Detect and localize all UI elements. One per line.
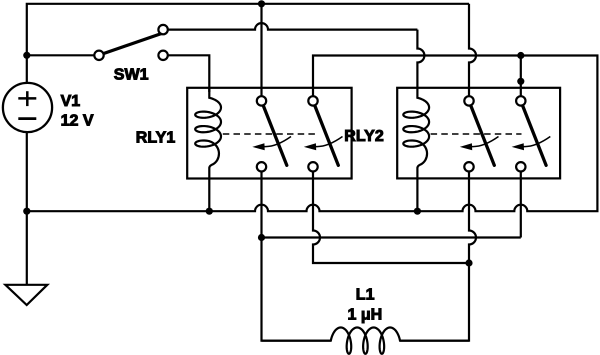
svg-text:1 μH: 1 μH — [348, 307, 383, 324]
svg-text:RLY1: RLY1 — [136, 129, 176, 146]
svg-text:12 V: 12 V — [61, 113, 94, 130]
svg-text:L1: L1 — [356, 287, 375, 304]
svg-text:RLY2: RLY2 — [344, 128, 384, 145]
svg-text:V1: V1 — [61, 93, 81, 110]
svg-text:SW1: SW1 — [114, 66, 149, 83]
